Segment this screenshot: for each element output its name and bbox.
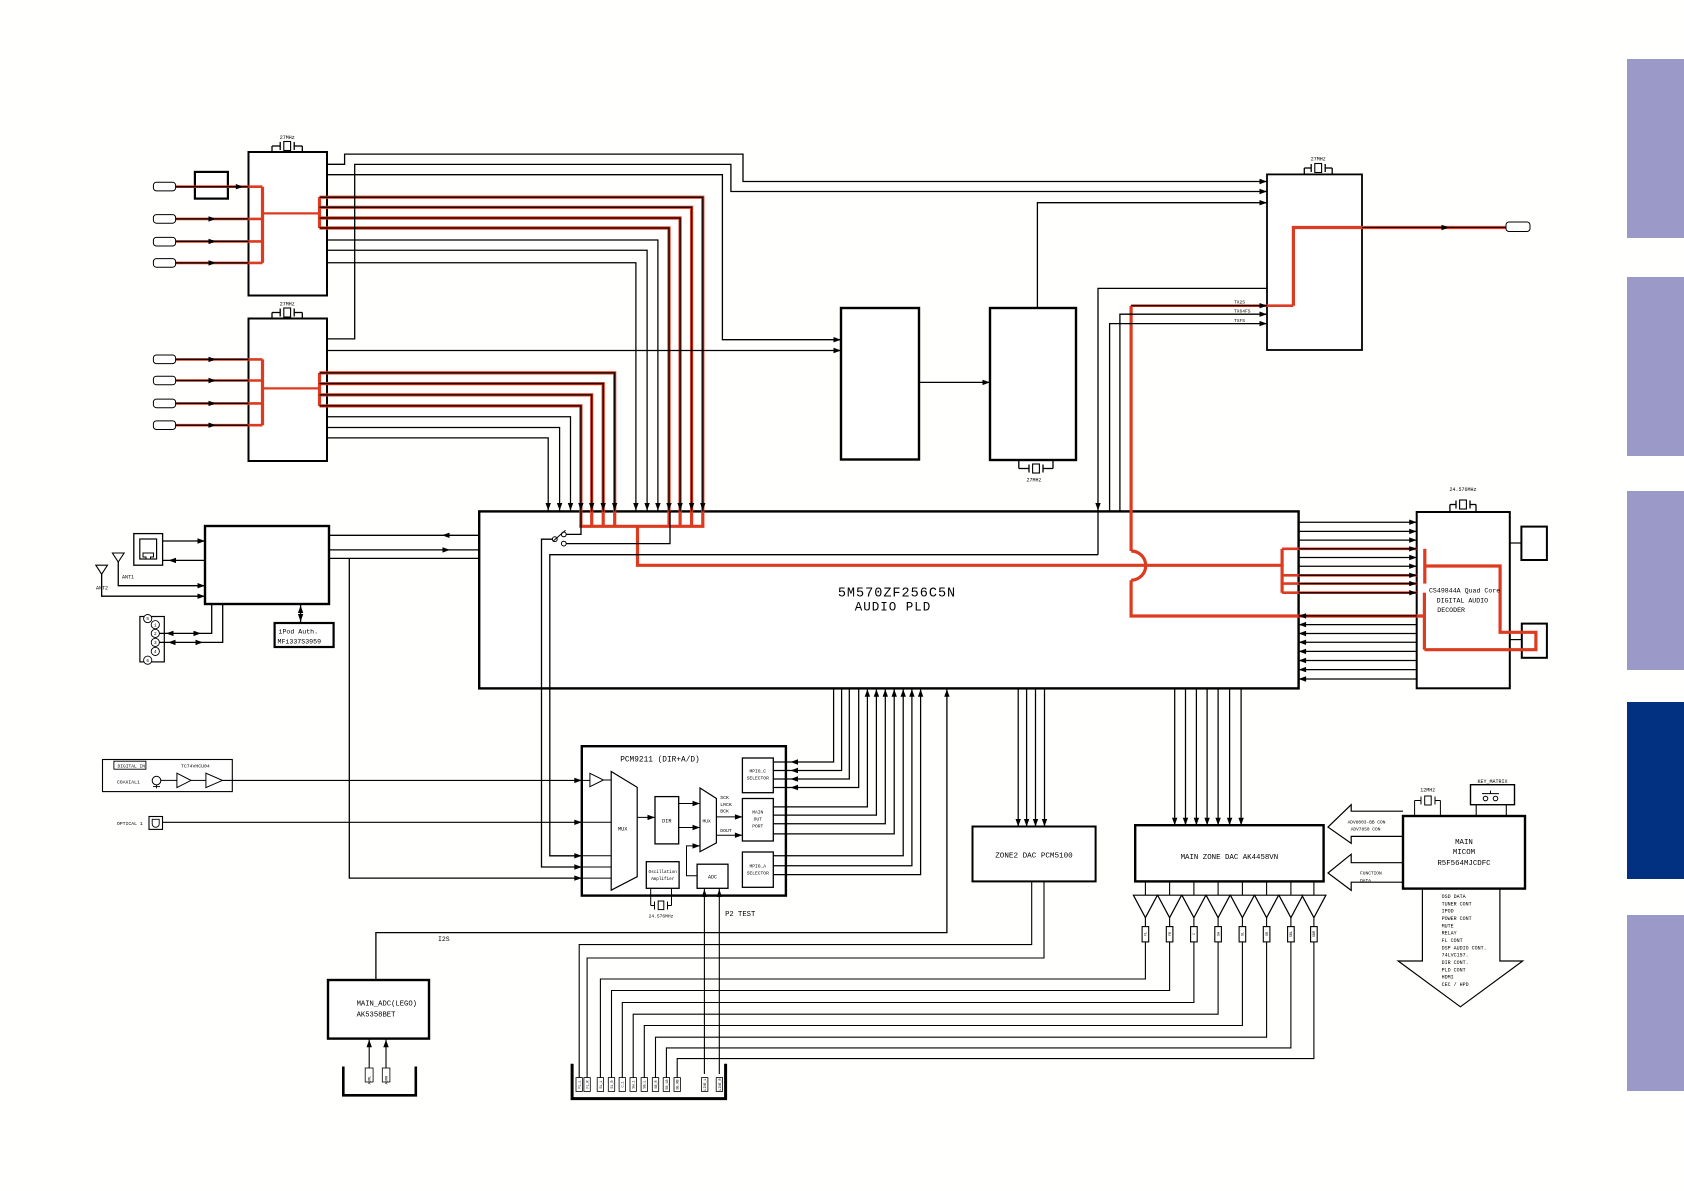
TX2S wire with label <box>1131 305 1267 307</box>
svg-text:PCM9211 (DIR+A/D): PCM9211 (DIR+A/D) <box>620 757 700 765</box>
red highlight wire HDMI2 TMDS pair 1 to PLD <box>320 373 615 512</box>
wire PCM9211 output 7 to PLD <box>773 688 920 874</box>
antenna ANT1 <box>112 553 124 562</box>
strip pin LINE_L <box>702 1078 708 1092</box>
op-amp buffer A1 <box>1144 881 1146 895</box>
svg-text:TX64FS: TX64FS <box>1234 309 1251 315</box>
wire CS49844A to PLD 3 <box>1299 633 1417 635</box>
ZONE2 DAC PCM5100 block U11 <box>973 827 1096 882</box>
black wires U1 lower group to PLD <box>327 240 658 511</box>
svg-text:PLD CONT: PLD CONT <box>1442 967 1466 973</box>
svg-text:MPIO_A: MPIO_A <box>750 864 767 870</box>
svg-text:LINE_L: LINE_L <box>704 1078 708 1090</box>
strip pin SL_R <box>608 1078 614 1092</box>
black cores of red bus U2 <box>320 373 615 512</box>
svg-text:2: 2 <box>154 632 157 637</box>
wire OPTICAL to PCM9211 <box>163 821 582 823</box>
PCM9211 oscillation amplifier box <box>646 862 679 889</box>
crystal X4 27MHz below U8 <box>1018 460 1020 469</box>
TX64FS wire <box>1120 314 1267 511</box>
svg-text:SL_R: SL_R <box>611 1080 615 1088</box>
wire R6 to strip <box>656 942 1267 1078</box>
red highlight wire HDMI2 TMDS pair 3 to PLD <box>320 395 592 512</box>
page tab 1 <box>1627 59 1684 238</box>
wire PLD to PCM9211 MPIO_C 1 <box>773 688 833 762</box>
svg-text:DOUT: DOUT <box>720 828 732 834</box>
svg-text:MAIN: MAIN <box>1455 839 1473 847</box>
PCM9211 DIR box <box>655 797 679 844</box>
black cores of red bus U1 (horiz segments) <box>320 197 703 511</box>
MAIN MICOM R5F564MJCDFC block U13 <box>1403 816 1525 889</box>
red highlight wire HDMI2 TMDS pair 4 to PLD <box>320 406 581 512</box>
svg-text:27MHz: 27MHz <box>1026 478 1041 484</box>
TXFS wire <box>1110 324 1267 512</box>
svg-text:FL CONT: FL CONT <box>1442 938 1463 944</box>
page tab 2 <box>1627 277 1684 456</box>
DIN connector J10 with pins <box>140 617 164 662</box>
resistor R1 <box>1144 918 1146 927</box>
svg-text:PORT: PORT <box>752 824 763 830</box>
svg-text:27MHz: 27MHz <box>280 302 295 308</box>
svg-text:AUDIO PLD: AUDIO PLD <box>855 601 932 615</box>
strip pin SB_R <box>652 1078 658 1092</box>
svg-text:ADMR: ADMR <box>385 1075 389 1084</box>
svg-text:5M570ZF256C5N: 5M570ZF256C5N <box>838 587 956 602</box>
wire PCM9211 output 4 to PLD <box>773 688 894 834</box>
svg-text:Oscillation: Oscillation <box>649 870 678 875</box>
black wires U2 lower group to PLD <box>327 417 571 512</box>
svg-text:OUT: OUT <box>754 817 763 823</box>
wire PLD to MAIN ZONE DAC 5 <box>1217 688 1219 825</box>
wire PLD to MAIN ZONE DAC 6 <box>1229 688 1231 825</box>
wire PLD to CS49844A 8 <box>1299 583 1417 585</box>
resistor R7 <box>1290 918 1292 927</box>
svg-text:ADML: ADML <box>369 1076 373 1085</box>
resistor R5 <box>1241 918 1243 927</box>
wire: U8 to HDMI TX in3 <box>1037 203 1267 308</box>
svg-text:SBL: SBL <box>1290 931 1294 937</box>
strip pin C_1 <box>619 1078 625 1092</box>
op-amp buffer A2 <box>1169 881 1171 895</box>
wire CS49844A to PLD 5 <box>1299 650 1417 652</box>
middle block U8 <box>990 308 1076 460</box>
iPod Auth. MFi337S3959 block U4 <box>275 623 334 647</box>
resistor R3 <box>1193 918 1195 927</box>
red wire TX2S into HDMI TX block <box>1131 304 1293 307</box>
crystal X6 24.576MHz below PCM9211 <box>650 888 652 905</box>
svg-text:6: 6 <box>146 659 149 664</box>
wire J9 to U3 (two) <box>163 540 205 542</box>
wire PLD to CS49844A 3 <box>1299 539 1417 541</box>
middle block U7 <box>841 308 919 460</box>
wire R7 to strip <box>666 942 1291 1078</box>
red trunk inside PLD <box>638 526 1283 565</box>
svg-text:HDMI: HDMI <box>1442 975 1454 981</box>
PLD input select switches <box>561 532 566 537</box>
wire R1 to strip <box>600 942 1145 1078</box>
svg-text:FUNCTION: FUNCTION <box>1360 871 1382 877</box>
crystal X1 27MHz on U1 <box>271 146 273 152</box>
PCM9211 MUX1 trapezoid <box>611 772 637 891</box>
svg-text:5: 5 <box>146 617 149 622</box>
svg-text:ADV7850 CON: ADV7850 CON <box>1351 827 1381 833</box>
svg-text:MFi337S3959: MFi337S3959 <box>278 639 322 646</box>
MAIN_ADC lower bracket <box>343 1067 416 1096</box>
op-amp buffer A7 <box>1290 881 1292 895</box>
FUNCTION DATA block arrow to MICOM <box>1328 854 1403 890</box>
connector box right of U9 (lower) <box>1522 624 1547 658</box>
svg-text:12MHz: 12MHz <box>1420 788 1435 794</box>
network module U3 wires to PLD <box>329 534 479 536</box>
MAIN_ADC(LEGO) AK5358BET block U14 <box>328 980 429 1039</box>
wire PLD to PCM9211 MPIO_C 3 <box>773 688 849 779</box>
wire CS49844A to PLD 6 <box>1299 660 1417 662</box>
svg-text:DSP AUDIO CONT.: DSP AUDIO CONT. <box>1442 945 1487 951</box>
wire CS49844A to PLD 1 <box>1299 615 1417 617</box>
wire R4 to strip <box>633 942 1218 1078</box>
svg-text:MICOM: MICOM <box>1453 849 1475 857</box>
wire: U2 TMDS out to HDMI TX in2 <box>327 164 1267 339</box>
op-amp buffer A3 <box>1193 881 1195 895</box>
svg-text:MPIO_C: MPIO_C <box>750 769 767 775</box>
ZONE2 DAC outputs to strip <box>579 881 1031 1077</box>
svg-text:LRCK: LRCK <box>720 802 732 808</box>
svg-text:RELAY: RELAY <box>1442 931 1457 937</box>
red vertical TX2S from HDMI TX <box>1129 306 1132 551</box>
svg-text:POWER CONT: POWER CONT <box>1442 916 1472 922</box>
svg-text:P2 TEST: P2 TEST <box>725 911 756 919</box>
HDMI TX output wire and connector J11 <box>1362 227 1506 229</box>
red highlight wire HDMI1 TMDS pair 1 to PLD <box>320 197 703 511</box>
wire PLD to CS49844A 1 <box>1299 521 1417 523</box>
PCM9211 MPIO_C selector box <box>742 758 773 793</box>
wire PLD to CS49844A 6 <box>1299 565 1417 567</box>
wire CS49844A to PLD 8 <box>1299 678 1417 680</box>
PCM9211 ADC box <box>697 864 728 888</box>
red bus joining bar inside PLD <box>579 511 582 526</box>
MAIN_ADC pin labels <box>365 1068 373 1082</box>
svg-text:R5F564MJCDFC: R5F564MJCDFC <box>1437 860 1491 868</box>
I2S wire MAIN_ADC to PLD <box>376 688 947 980</box>
wire PCM9211 output 6 to PLD <box>773 688 912 865</box>
svg-text:SR: SR <box>1266 932 1270 936</box>
svg-text:OPTICAL 1: OPTICAL 1 <box>117 821 143 827</box>
PCM9211 MUX2 trapezoid <box>700 788 716 852</box>
wire PCM9211 output 3 to PLD <box>773 688 885 823</box>
wire PLD to CS49844A 5 <box>1299 557 1417 559</box>
svg-text:MUTE: MUTE <box>1442 923 1454 929</box>
svg-text:SB_LB: SB_LB <box>666 1079 670 1089</box>
bottom connector strip <box>572 1064 726 1099</box>
page tab 4 (current, dark) <box>1627 702 1684 879</box>
svg-text:Amplifier: Amplifier <box>651 877 675 882</box>
red distribution rectangle at PLD right edge <box>1280 549 1283 593</box>
svg-text:FR: FR <box>1169 932 1173 936</box>
svg-text:OSD DATA: OSD DATA <box>1442 894 1466 900</box>
svg-text:SL: SL <box>1242 932 1246 936</box>
wire: U2 to U7 in2 <box>327 350 841 352</box>
svg-text:TC74VHCU04: TC74VHCU04 <box>181 763 210 769</box>
network/BT module block U3 (mid-left) <box>205 526 329 604</box>
red net: HDMI2 TMDS highlight through U2 <box>176 358 263 361</box>
switch wires inside PLD <box>566 511 581 534</box>
svg-text:4: 4 <box>154 650 157 655</box>
PCM9211 ADC to MUX2 wire <box>687 846 701 876</box>
red net inside CS49844A <box>1423 549 1426 584</box>
svg-text:FL_L: FL_L <box>579 1080 583 1088</box>
strip pin FL_R <box>584 1078 590 1092</box>
CS49844A stubs to side connectors <box>1510 542 1522 544</box>
wire: U3 to PCM9211 input5 <box>349 558 582 878</box>
op-amp buffer A6 <box>1266 881 1268 895</box>
wire R3 to strip <box>622 942 1194 1078</box>
wire PLD to PCM9211 MPIO_C 4 <box>773 688 858 787</box>
PCM9211 input wires to MUX1 <box>582 821 611 823</box>
wire PCM9211 output 2 to PLD <box>773 688 876 815</box>
LAN connector J9 <box>134 534 163 566</box>
crystal X2 27MHz on U2 <box>271 313 273 319</box>
wire PLD to CS49844A 2 <box>1299 530 1417 532</box>
svg-text:DIGITAL AUDIO: DIGITAL AUDIO <box>1437 598 1488 605</box>
svg-text:LINE_R: LINE_R <box>719 1078 723 1090</box>
wire CS49844A to PLD 4 <box>1299 641 1417 643</box>
wire R5 to strip <box>644 942 1242 1078</box>
MAIN_ADC output wires <box>368 1039 370 1068</box>
MICOM big output arrow down <box>1398 889 1523 1007</box>
op-amp buffer A5 <box>1241 881 1243 895</box>
svg-text:CS49844A Quad Core: CS49844A Quad Core <box>1429 588 1500 595</box>
svg-text:1: 1 <box>154 623 157 628</box>
crystal X5 24.576MHz on CS49844A <box>1449 505 1451 513</box>
red net: HDMI1 TMDS highlight through U1 <box>176 185 263 188</box>
svg-text:3: 3 <box>154 641 157 646</box>
HDMI receiver block U2 (lower-left) <box>249 319 328 462</box>
svg-text:C_1: C_1 <box>622 1081 626 1087</box>
wire PLD to PCM9211 MPIO_C 2 <box>773 688 841 770</box>
svg-text:ANT1: ANT1 <box>122 575 134 581</box>
KEY_MATRIX box <box>1471 785 1515 805</box>
wires J10 to U3 <box>160 604 212 633</box>
wire CS49844A to PLD 7 <box>1299 669 1417 671</box>
svg-text:MAIN: MAIN <box>752 810 763 816</box>
strip pin SB_L <box>641 1078 647 1092</box>
svg-text:DATA: DATA <box>1360 878 1371 884</box>
series device box on connector J1 wire <box>195 172 228 199</box>
wire PLD to ZONE2 DAC 2 <box>1026 688 1028 826</box>
wire PLD to ZONE2 DAC 3 <box>1035 688 1037 826</box>
wire PLD to ZONE2 DAC 1 <box>1017 688 1019 826</box>
HDMI receiver block U1 (top-left) <box>249 152 328 296</box>
wire PCM9211 output 1 to PLD <box>773 688 867 807</box>
PCM9211 DIR+A/D block U10 <box>582 746 786 895</box>
svg-text:DIR: DIR <box>662 819 671 825</box>
PCM9211 MAIN OUT PORT box <box>742 799 773 842</box>
DIGITAL IN input circuit box <box>103 760 233 792</box>
svg-text:MAIN ZONE DAC AK4458VN: MAIN ZONE DAC AK4458VN <box>1181 854 1279 862</box>
svg-text:ADC: ADC <box>708 875 717 881</box>
resistor R8 <box>1313 918 1315 927</box>
svg-text:ADV8003-BB CON: ADV8003-BB CON <box>1348 820 1386 826</box>
wire HDMI TX pin to PLD internal <box>1098 288 1267 554</box>
wire COAXIAL to PCM9211 <box>222 779 581 781</box>
svg-text:KEY_MATRIX: KEY_MATRIX <box>1477 779 1507 785</box>
svg-text:24.576MHz: 24.576MHz <box>1449 487 1476 493</box>
wire: U1 to U7 in1 <box>327 175 841 340</box>
svg-text:COAXIAL1: COAXIAL1 <box>117 780 140 786</box>
svg-text:74LVC157.: 74LVC157. <box>1442 953 1469 959</box>
red highlight wire HDMI2 TMDS pair 2 to PLD <box>320 384 604 512</box>
svg-text:FL_R: FL_R <box>587 1080 591 1088</box>
svg-text:FL: FL <box>1145 932 1149 936</box>
strip pin LINE_R <box>716 1078 722 1092</box>
svg-text:ANT2: ANT2 <box>96 586 108 592</box>
HDMI input connectors J1-J4 with wires <box>153 182 175 191</box>
svg-text:SW_1: SW_1 <box>633 1080 637 1088</box>
crystal X3 27MHz on HDMI TX <box>1303 168 1305 174</box>
buffer triangles in DIGITAL IN <box>177 773 191 787</box>
svg-text:AK5358BET: AK5358BET <box>357 1012 397 1020</box>
connector box right of U9 (upper) <box>1521 527 1547 560</box>
svg-text:ZONE2 DAC PCM5100: ZONE2 DAC PCM5100 <box>995 853 1073 861</box>
svg-text:I2S: I2S <box>438 936 450 943</box>
svg-text:TUNER CONT: TUNER CONT <box>1442 901 1472 907</box>
svg-text:DIR CONT.: DIR CONT. <box>1442 960 1469 966</box>
svg-text:27MHz: 27MHz <box>1311 157 1326 163</box>
wire PLD to MAIN ZONE DAC 2 <box>1185 688 1187 825</box>
svg-text:CEC / HPD: CEC / HPD <box>1442 982 1469 988</box>
strip pin SW_1 <box>630 1078 636 1092</box>
svg-text:SL_L: SL_L <box>600 1080 604 1088</box>
svg-text:SCK: SCK <box>720 795 729 801</box>
svg-text:SB_R: SB_R <box>655 1080 659 1088</box>
PCM9211 buffer triangle <box>590 773 604 786</box>
svg-text:TX2S: TX2S <box>1234 299 1245 305</box>
page tab 5 <box>1627 915 1684 1091</box>
svg-text:TXFS: TXFS <box>1234 318 1245 324</box>
red highlight wire HDMI1 TMDS pair 3 to PLD <box>320 218 681 511</box>
svg-text:SELECTOR: SELECTOR <box>747 776 769 782</box>
svg-text:DIGITAL IN: DIGITAL IN <box>118 763 146 769</box>
wire R8 to strip <box>677 942 1314 1078</box>
svg-text:27MHz: 27MHz <box>280 135 295 141</box>
svg-text:DECODER: DECODER <box>1437 607 1465 614</box>
svg-text:C: C <box>1193 933 1197 935</box>
crystal X7 12MHz on MICOM <box>1414 801 1416 817</box>
strip pin SB_RB <box>674 1078 680 1092</box>
svg-text:SB_L: SB_L <box>644 1080 648 1088</box>
op-amp buffer A8 <box>1313 881 1315 895</box>
wire PLD to CS49844A 9 <box>1299 592 1417 594</box>
wire PLD to CS49844A 7 <box>1299 574 1417 576</box>
svg-text:SB_RB: SB_RB <box>677 1079 681 1089</box>
svg-text:IPOD: IPOD <box>1442 909 1454 915</box>
wire PCM9211 output 5 to PLD <box>773 688 903 855</box>
AUDIO PLD 5M570ZF256C5N U5 main block <box>479 511 1298 688</box>
strip pin FL_L <box>576 1078 582 1092</box>
wire CS49844A to PLD 2 <box>1299 624 1417 626</box>
resistor R2 <box>1169 918 1171 927</box>
MAIN ZONE DAC AK4458VN block U12 <box>1135 825 1323 881</box>
strip pin SL_L <box>597 1078 603 1092</box>
wire: U7 to U8 <box>919 381 990 383</box>
wire R2 to strip <box>612 942 1170 1078</box>
HDMI transmitter block U6 (top-right) <box>1267 174 1362 350</box>
wire PLD to MAIN ZONE DAC 7 <box>1240 688 1242 825</box>
strip pin SB_LB <box>663 1078 669 1092</box>
wire PLD to MAIN ZONE DAC 3 <box>1195 688 1197 825</box>
PCM9211 MPIO_A selector box <box>742 852 773 887</box>
wire U3 to iPod auth (bidirectional) <box>300 604 302 623</box>
resistor R6 <box>1266 918 1268 927</box>
wire PLD to MAIN ZONE DAC 4 <box>1206 688 1208 825</box>
wire PLD to CS49844A 4 <box>1299 548 1417 550</box>
wire PLD to ZONE2 DAC 4 <box>1044 688 1046 826</box>
page tab 3 <box>1627 491 1684 670</box>
ADV8003/ADV7850 block arrow to MICOM <box>1328 805 1403 844</box>
HDMI input connectors J5-J8 with wires <box>153 355 175 364</box>
wire: U1 TMDS out to HDMI TX in1 <box>327 154 1267 181</box>
svg-text:24.576MHz: 24.576MHz <box>649 913 674 919</box>
svg-text:MUX: MUX <box>618 827 628 833</box>
antenna ANT2 <box>96 565 108 574</box>
svg-text:MAIN_ADC(LEGO): MAIN_ADC(LEGO) <box>357 1001 417 1009</box>
svg-text:MUX: MUX <box>703 819 712 825</box>
svg-text:BCK: BCK <box>720 809 729 815</box>
CS49844A digital audio decoder U9 <box>1417 512 1510 688</box>
svg-text:SBR: SBR <box>1313 931 1317 937</box>
svg-text:iPod Auth.: iPod Auth. <box>279 629 319 636</box>
resistor R4 <box>1217 918 1219 927</box>
red highlight wire HDMI1 TMDS pair 4 to PLD <box>320 228 670 511</box>
svg-text:SELECTOR: SELECTOR <box>747 871 769 877</box>
P2 TEST wires from ADC <box>703 888 705 1074</box>
op-amp buffer A4 <box>1217 881 1219 895</box>
wire PLD to MAIN ZONE DAC 1 <box>1174 688 1176 825</box>
red highlight wire HDMI1 TMDS pair 2 to PLD <box>320 207 692 511</box>
